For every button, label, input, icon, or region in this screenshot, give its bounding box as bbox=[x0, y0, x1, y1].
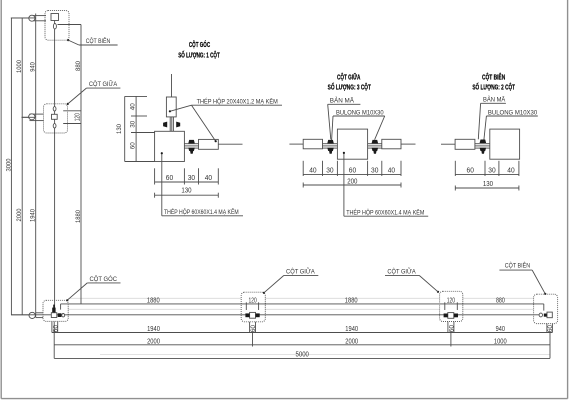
svg-text:1880: 1880 bbox=[147, 295, 160, 304]
svg-text:30: 30 bbox=[371, 168, 378, 175]
svg-text:CỘT BIÊN: CỘT BIÊN bbox=[482, 72, 505, 81]
svg-text:60: 60 bbox=[166, 175, 173, 182]
svg-text:BẢN MÃ: BẢN MÃ bbox=[330, 98, 355, 105]
svg-text:2000: 2000 bbox=[147, 336, 160, 345]
svg-text:880: 880 bbox=[75, 61, 82, 71]
svg-text:THÉP HỘP 60X60X1.4 MẠ KẼM: THÉP HỘP 60X60X1.4 MẠ KẼM bbox=[346, 209, 424, 216]
svg-text:130: 130 bbox=[181, 187, 191, 194]
svg-text:5000: 5000 bbox=[296, 350, 309, 359]
svg-text:1880: 1880 bbox=[75, 210, 82, 223]
svg-text:30: 30 bbox=[188, 175, 195, 182]
svg-text:60: 60 bbox=[53, 324, 59, 332]
svg-text:SỐ LƯỢNG: 1 CỘT: SỐ LƯỢNG: 1 CỘT bbox=[178, 50, 220, 60]
svg-text:940: 940 bbox=[30, 62, 37, 72]
svg-text:1940: 1940 bbox=[345, 324, 358, 333]
svg-text:CỘT GIỮA: CỘT GIỮA bbox=[286, 268, 316, 275]
svg-text:40: 40 bbox=[507, 168, 514, 175]
svg-text:CỘT GIỮA: CỘT GIỮA bbox=[387, 268, 416, 275]
svg-text:THÉP HỘP 60X60X1.4 MẠ KẼM: THÉP HỘP 60X60X1.4 MẠ KẼM bbox=[164, 209, 239, 216]
svg-text:60: 60 bbox=[349, 168, 356, 175]
svg-text:30: 30 bbox=[488, 168, 495, 175]
svg-text:SỐ LƯỢNG: 2 CỘT: SỐ LƯỢNG: 2 CỘT bbox=[472, 82, 515, 92]
svg-text:60: 60 bbox=[467, 168, 474, 175]
svg-text:BẢN MÃ: BẢN MÃ bbox=[483, 97, 506, 104]
svg-text:60: 60 bbox=[450, 324, 456, 332]
svg-text:60: 60 bbox=[251, 324, 257, 332]
svg-text:120: 120 bbox=[249, 295, 257, 304]
svg-text:130: 130 bbox=[116, 124, 123, 134]
svg-text:940: 940 bbox=[496, 324, 505, 333]
svg-text:40: 40 bbox=[205, 175, 212, 182]
svg-text:880: 880 bbox=[496, 295, 505, 304]
svg-text:1000: 1000 bbox=[16, 60, 23, 73]
svg-text:3000: 3000 bbox=[5, 158, 12, 171]
svg-text:120: 120 bbox=[447, 295, 455, 304]
svg-text:30: 30 bbox=[326, 168, 333, 175]
svg-text:CỘT BIÊN: CỘT BIÊN bbox=[86, 37, 111, 45]
svg-text:120: 120 bbox=[73, 113, 82, 121]
svg-text:BULONG M10X30: BULONG M10X30 bbox=[488, 110, 538, 117]
svg-text:1940: 1940 bbox=[30, 209, 37, 222]
svg-text:60: 60 bbox=[548, 324, 554, 332]
svg-text:40: 40 bbox=[309, 168, 316, 175]
svg-text:1000: 1000 bbox=[494, 336, 507, 345]
svg-text:2000: 2000 bbox=[16, 208, 23, 221]
svg-text:CỘT GIỮA: CỘT GIỮA bbox=[89, 81, 118, 88]
svg-text:CỘT BIÊN: CỘT BIÊN bbox=[505, 261, 530, 269]
svg-text:CỘT GIỮA: CỘT GIỮA bbox=[337, 72, 361, 81]
svg-text:130: 130 bbox=[483, 181, 493, 188]
svg-text:40: 40 bbox=[388, 168, 395, 175]
svg-text:CỘT GÓC: CỘT GÓC bbox=[189, 40, 211, 49]
svg-text:THÉP HỘP 20X40X1.2 MẠ KẼM: THÉP HỘP 20X40X1.2 MẠ KẼM bbox=[197, 99, 278, 106]
svg-text:1940: 1940 bbox=[147, 324, 160, 333]
svg-text:30: 30 bbox=[130, 120, 137, 127]
svg-text:200: 200 bbox=[347, 179, 357, 186]
svg-text:CỘT GÓC: CỘT GÓC bbox=[90, 276, 118, 283]
svg-text:2000: 2000 bbox=[345, 336, 358, 345]
svg-text:1880: 1880 bbox=[345, 295, 358, 304]
svg-text:40: 40 bbox=[130, 103, 137, 110]
svg-text:SỐ LƯỢNG: 3 CỘT: SỐ LƯỢNG: 3 CỘT bbox=[328, 82, 372, 92]
svg-text:BULONG M10X30: BULONG M10X30 bbox=[336, 110, 384, 117]
svg-text:60: 60 bbox=[130, 142, 137, 149]
